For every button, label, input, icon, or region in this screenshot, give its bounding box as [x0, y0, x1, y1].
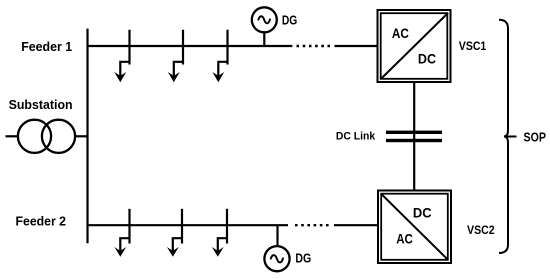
converter VSC2	[378, 191, 451, 264]
load 2 on feeder 1	[168, 30, 184, 83]
feeder 2 label	[16, 213, 67, 228]
VSC1 AC label	[392, 25, 409, 41]
VSC2 DC label	[413, 205, 432, 221]
feeder 1 bus wire	[87, 45, 293, 47]
svg-text:DG: DG	[282, 13, 297, 28]
VSC2 label	[467, 223, 495, 237]
trunk wire	[86, 29, 88, 244]
DG label on feeder 2	[295, 250, 311, 265]
svg-text:Feeder 2: Feeder 2	[16, 213, 67, 228]
VSC2 AC label	[396, 231, 413, 247]
svg-text:VSC2: VSC2	[467, 223, 495, 237]
DG label on feeder 1	[282, 13, 297, 28]
DC link capacitor	[386, 131, 442, 143]
substation transformer	[6, 120, 89, 153]
svg-text:Substation: Substation	[9, 97, 73, 112]
SOP brace	[499, 20, 517, 253]
svg-text:DC Link: DC Link	[336, 131, 376, 143]
load 1 on feeder 1	[114, 30, 130, 83]
wire to VSC1	[335, 45, 379, 47]
substation label	[9, 97, 73, 112]
DC Link label	[336, 131, 376, 143]
DC link wire	[413, 82, 415, 191]
VSC1 label	[459, 39, 487, 53]
wire to VSC2	[334, 224, 378, 226]
converter VSC1	[378, 10, 451, 82]
svg-text:AC: AC	[392, 25, 409, 41]
feeder 2 dotted wire	[295, 224, 329, 226]
DG source on feeder 1	[252, 7, 277, 46]
load 1 on feeder 2	[114, 209, 130, 257]
feeder 2 bus wire	[87, 224, 289, 226]
svg-text:DC: DC	[418, 51, 436, 67]
feeder 1 dotted wire	[297, 45, 331, 47]
svg-text:AC: AC	[396, 231, 413, 247]
svg-text:SOP: SOP	[524, 131, 546, 145]
VSC1 DC label	[418, 51, 436, 67]
load 3 on feeder 2	[212, 209, 228, 257]
load 2 on feeder 2	[167, 209, 183, 257]
load 3 on feeder 1	[212, 30, 228, 83]
svg-text:VSC1: VSC1	[459, 39, 487, 53]
svg-text:Feeder 1: Feeder 1	[21, 39, 72, 54]
svg-text:DC: DC	[413, 205, 432, 221]
svg-text:DG: DG	[295, 250, 311, 265]
SOP label	[524, 131, 546, 145]
feeder 1 label	[21, 39, 72, 54]
DG source on feeder 2	[264, 225, 289, 271]
